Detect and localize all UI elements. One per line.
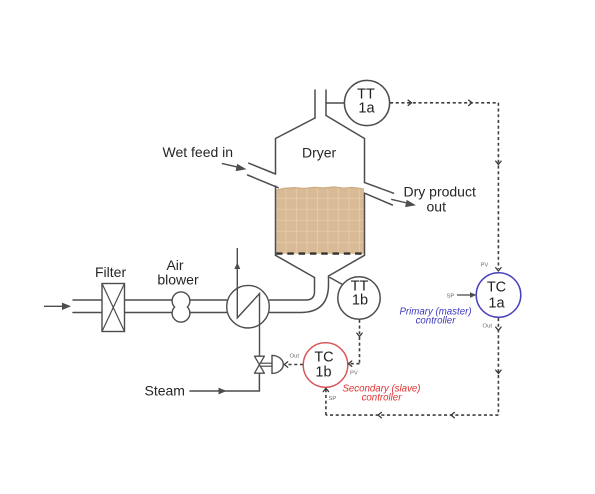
svg-text:1a: 1a <box>488 296 505 312</box>
svg-text:1b: 1b <box>352 293 368 309</box>
svg-text:PV: PV <box>350 371 358 377</box>
svg-text:TC: TC <box>487 280 506 296</box>
svg-text:Dryer: Dryer <box>302 145 337 161</box>
svg-text:1b: 1b <box>315 365 331 381</box>
svg-text:out: out <box>427 199 447 215</box>
svg-text:TC: TC <box>314 350 333 366</box>
svg-text:Filter: Filter <box>95 264 126 280</box>
svg-text:Wet feed in: Wet feed in <box>163 144 234 160</box>
svg-text:Steam: Steam <box>145 383 185 399</box>
svg-text:1a: 1a <box>358 101 375 117</box>
svg-text:Dry product: Dry product <box>404 184 476 200</box>
svg-text:Out: Out <box>483 324 493 330</box>
svg-text:Out: Out <box>290 354 300 360</box>
svg-text:SP: SP <box>329 396 337 402</box>
svg-text:controller: controller <box>416 316 457 327</box>
svg-text:blower: blower <box>157 272 199 288</box>
svg-text:controller: controller <box>362 393 403 404</box>
svg-text:SP: SP <box>447 294 455 300</box>
svg-text:PV: PV <box>481 263 489 269</box>
